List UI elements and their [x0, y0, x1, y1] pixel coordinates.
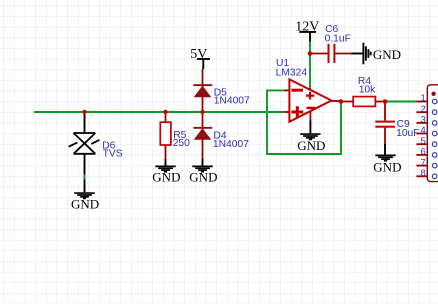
svg-text:1: 1: [420, 92, 425, 103]
svg-text:TVS: TVS: [103, 149, 123, 160]
svg-text:10k: 10k: [359, 85, 376, 96]
svg-text:0.1uF: 0.1uF: [325, 34, 351, 45]
svg-text:GND: GND: [71, 197, 99, 212]
svg-text:4: 4: [420, 124, 425, 135]
svg-text:3: 3: [420, 114, 425, 125]
svg-text:2: 2: [420, 103, 425, 114]
svg-text:1N4007: 1N4007: [213, 139, 249, 150]
svg-text:8: 8: [420, 167, 425, 178]
svg-text:1N4007: 1N4007: [214, 96, 250, 107]
svg-text:5: 5: [420, 135, 425, 146]
svg-text:5V: 5V: [190, 47, 207, 62]
svg-text:GND: GND: [152, 170, 180, 185]
svg-text:LM324: LM324: [276, 67, 308, 78]
svg-text:250: 250: [173, 138, 190, 149]
svg-text:GND: GND: [189, 170, 217, 185]
svg-text:GND: GND: [297, 138, 325, 153]
svg-text:7: 7: [420, 156, 425, 167]
svg-text:10uF: 10uF: [396, 128, 419, 139]
svg-text:6: 6: [420, 146, 425, 157]
svg-text:GND: GND: [373, 160, 401, 175]
svg-text:12V: 12V: [295, 20, 319, 35]
svg-text:GND: GND: [373, 47, 401, 62]
